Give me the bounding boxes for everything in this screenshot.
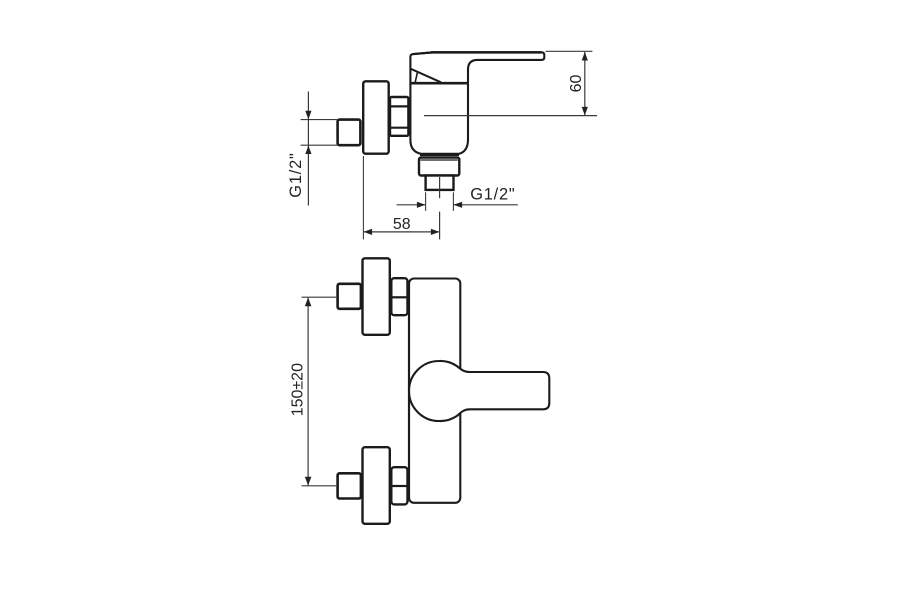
outlet pipe G1/2: [426, 176, 454, 190]
dim G1/2 left: dimension line: [307, 92, 309, 206]
hex union nut top (front view): [391, 278, 407, 315]
dim 60: arrow pointing up: [582, 52, 588, 61]
handle base slant line lower: [415, 72, 417, 83]
outlet vertical centerline upper segment: [439, 177, 441, 198]
body left edge redrawn (continuous): [408, 283, 410, 498]
dim 58: dimension line: [363, 231, 439, 233]
dim G1/2 left: arrow pointing down: [305, 111, 311, 120]
svg-text:150±20: 150±20: [290, 363, 307, 416]
nut top facet middle line: [392, 296, 407, 298]
dim G1/2 outlet: arrow pointing left: [454, 202, 463, 208]
nut bottom facet middle line: [392, 485, 407, 487]
svg-text:G1/2": G1/2": [470, 185, 515, 203]
collar flange below body: [419, 158, 459, 176]
dim G1/2 left: extension line top: [301, 119, 337, 121]
outlet vertical centerline lower segment: [439, 212, 441, 240]
dim 58: extension line left: [362, 156, 364, 239]
handle top edge rise thick: [412, 52, 433, 54]
hex union nut (side view): [390, 97, 408, 136]
collar inner band line: [421, 159, 458, 161]
cartridge cap thick line: [410, 82, 469, 85]
dim G1/2 outlet: extension line left: [425, 192, 427, 211]
handle knob and lever (front view): [409, 361, 549, 421]
dim G1/2 outlet: left leader line: [397, 204, 425, 206]
wall supply connector bottom (front view): [338, 473, 361, 498]
dim 58: arrow pointing right: [431, 229, 440, 235]
dim 150: arrow pointing up: [305, 298, 312, 307]
svg-text:G1/2": G1/2": [287, 152, 305, 197]
dim G1/2 outlet: extension line right: [452, 192, 454, 211]
handle base slant line upper: [411, 69, 441, 83]
faucet body with handle lever (side view outline): [410, 52, 544, 154]
dim 150: extension line top: [302, 296, 338, 298]
dim G1/2 outlet: arrow pointing right: [417, 202, 426, 208]
dim 150: dimension line: [307, 298, 309, 486]
dim G1/2 left: arrow pointing up: [305, 146, 311, 155]
body bottom thick line: [420, 153, 459, 156]
wall supply connector stub (side view): [338, 120, 361, 146]
hex nut facet line upper: [391, 105, 408, 107]
wall escutcheon top (front view): [363, 258, 390, 335]
dim 58: arrow pointing left: [364, 229, 373, 235]
faucet body (front view): [409, 279, 460, 503]
wall escutcheon bottom (front view): [363, 447, 390, 524]
dim 150: arrow pointing down: [305, 477, 312, 486]
hex nut facet line lower: [391, 127, 408, 129]
dim 150: extension line bottom: [302, 485, 338, 487]
svg-text:60: 60: [568, 75, 585, 93]
dim 60: arrow pointing down: [582, 107, 588, 116]
hex union nut bottom (front view): [391, 467, 407, 504]
handle top edge thick: [431, 51, 542, 54]
centerline of inlet axis (horizontal, to 60-dim): [424, 115, 597, 117]
dim 60: dimension line: [584, 52, 586, 115]
dim G1/2 left: extension line bottom: [301, 144, 337, 146]
wall escutcheon (side view): [363, 81, 389, 153]
dim 60: extension line top (handle top): [546, 50, 593, 52]
svg-text:58: 58: [393, 216, 411, 233]
dim G1/2 outlet: right leader line: [454, 204, 518, 206]
wall supply connector top (front view): [338, 284, 361, 309]
